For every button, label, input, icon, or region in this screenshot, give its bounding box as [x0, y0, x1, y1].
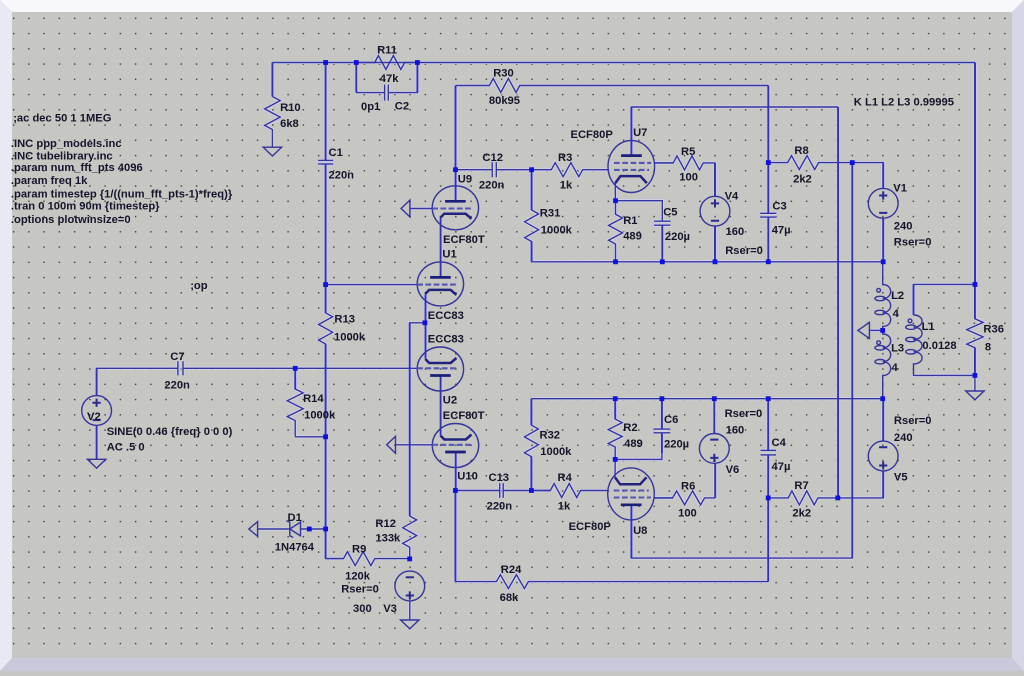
wire R8 to V1 [852, 163, 883, 189]
svg-text:1N4764: 1N4764 [275, 541, 315, 553]
svg-text:489: 489 [623, 231, 642, 243]
svg-text:R11: R11 [377, 45, 397, 57]
wire upper rail [532, 261, 884, 263]
wire R8 node drop (cross-couple) [851, 163, 853, 558]
capacitor C2 plate1 [384, 85, 386, 101]
capacitor C6 lead-top [661, 399, 663, 429]
resistor R24 [455, 575, 768, 589]
wire V3 bottom [409, 601, 411, 620]
svg-text:ECF80P: ECF80P [569, 521, 612, 533]
wire R36 gnd stub [974, 375, 976, 391]
svg-text:220µ: 220µ [664, 439, 689, 451]
svg-text:R10: R10 [280, 102, 301, 114]
junction node at 715,262 [713, 259, 718, 264]
capacitor C13 lead-l [455, 490, 499, 492]
svg-text:SINE(0 0.46 {freq} 0 0 0): SINE(0 0.46 {freq} 0 0 0) [107, 426, 233, 438]
diode D1 1N4764 [286, 521, 300, 538]
svg-text:1000k: 1000k [334, 332, 366, 344]
svg-text:220n: 220n [329, 170, 355, 182]
svg-text:220n: 220n [479, 179, 505, 191]
capacitor C1 lead-bot [325, 164, 327, 285]
wire top rail [272, 62, 975, 64]
op-amp U7 pentode ECF80P [608, 141, 655, 193]
svg-text:R6: R6 [681, 481, 695, 493]
svg-text:120k: 120k [345, 571, 371, 583]
svg-text:100: 100 [678, 507, 697, 519]
capacitor C4 plate1 [761, 449, 777, 451]
junction node at 714,399 [712, 396, 717, 401]
node arrow D1 [249, 522, 258, 537]
voltage V6 [699, 434, 729, 464]
wire U8 g2 to R6 [654, 497, 672, 499]
svg-text:.INC tubelibrary.inc: .INC tubelibrary.inc [11, 151, 113, 163]
wire R10 top [271, 63, 273, 97]
svg-text:C2: C2 [395, 101, 409, 113]
wire U9 plate lead [455, 170, 457, 202]
svg-text:1k: 1k [558, 501, 571, 513]
wire V5 top [882, 399, 884, 441]
svg-text:.param num_fft_pts 4096: .param num_fft_pts 4096 [11, 162, 143, 174]
svg-text:ECF80T: ECF80T [443, 234, 485, 246]
svg-text:0p1: 0p1 [361, 101, 380, 113]
junction node at 852,163 [850, 160, 855, 165]
svg-text:V3: V3 [383, 603, 397, 615]
voltage V2 [82, 396, 112, 426]
wire U10 grid [396, 444, 433, 446]
svg-text:R30: R30 [493, 67, 514, 79]
junction node at 883,330 [880, 328, 885, 333]
resistor R2 [608, 399, 622, 460]
resistor R3 [532, 163, 609, 177]
svg-text:.INC ppp_models.inc: .INC ppp_models.inc [11, 138, 122, 150]
svg-text:U9: U9 [458, 173, 472, 185]
capacitor C6 lead-bot [661, 433, 663, 453]
wire R5 to V4 [714, 163, 716, 197]
svg-text:240: 240 [894, 221, 913, 233]
capacitor C6 plate1 [654, 428, 671, 430]
capacitor C13 lead-r [503, 490, 531, 492]
resistor R36 [967, 284, 983, 375]
capacitor C12 plate1 [491, 162, 493, 177]
junction node at 326,437 [323, 434, 328, 439]
svg-text:V4: V4 [725, 191, 739, 203]
resistor R11 [356, 56, 417, 70]
capacitor C7 plate2 [182, 361, 184, 375]
svg-text:C3: C3 [772, 200, 786, 212]
wire V4 bottom [714, 226, 716, 262]
svg-text:240: 240 [894, 432, 913, 444]
svg-text:220µ: 220µ [665, 231, 690, 243]
svg-text:C7: C7 [170, 351, 184, 363]
resistor R31 [525, 170, 539, 262]
ground below R36 [966, 391, 984, 400]
voltage V1 [868, 188, 898, 218]
capacitor C2 plate2 [387, 85, 389, 101]
svg-text:R24: R24 [501, 564, 522, 576]
svg-text:R12: R12 [375, 518, 396, 530]
svg-text:2k2: 2k2 [793, 174, 812, 186]
wire cathode tee [410, 323, 426, 516]
wire U2 plate to U10 cathode [440, 375, 442, 434]
op-amp U1 triode ECC83 [417, 262, 463, 306]
svg-text:U10: U10 [457, 470, 478, 482]
wire column to R9 [326, 529, 344, 559]
capacitor C4 lead-bot [767, 455, 769, 498]
junction node at 425,323 [423, 320, 428, 325]
junction node at 883,262 [881, 259, 886, 264]
capacitor C13 plate2 [502, 483, 504, 498]
resistor R7 [768, 491, 838, 505]
resistor R10 [265, 97, 281, 148]
svg-text:R2: R2 [623, 422, 637, 434]
junction node at 768,262 [766, 259, 771, 264]
svg-text:R36: R36 [983, 324, 1004, 336]
svg-text:V6: V6 [726, 464, 740, 476]
capacitor C12 lead-l [456, 169, 493, 171]
wire R24 up to C4 node [767, 498, 769, 582]
svg-text:R9: R9 [352, 543, 366, 555]
voltage V4 [700, 196, 730, 226]
svg-text:L2: L2 [891, 290, 904, 302]
op-amp U2 triode ECC83 [417, 347, 463, 391]
svg-text:4: 4 [892, 362, 899, 374]
resistor R8 [768, 156, 852, 170]
junction node at 616,262 [613, 259, 618, 264]
svg-text:160: 160 [726, 226, 745, 238]
wire U8 plate down [631, 505, 852, 558]
capacitor C7 lead-l [171, 367, 178, 369]
svg-text:47µ: 47µ [772, 461, 791, 473]
junction node at 615,459 [613, 457, 618, 462]
svg-text:R3: R3 [558, 152, 572, 164]
svg-text:.param timestep {1/((num_fft_p: .param timestep {1/((num_fft_pts-1)*freq… [11, 189, 233, 201]
resistor R14 [287, 368, 303, 437]
svg-text:R1: R1 [623, 215, 637, 227]
svg-text:100: 100 [679, 172, 698, 184]
svg-text:Rser=0: Rser=0 [341, 583, 379, 595]
wire C2 branch right [394, 63, 417, 93]
svg-text:ECF80T: ECF80T [443, 410, 485, 422]
resistor R6 [654, 491, 715, 505]
svg-text:D1: D1 [288, 512, 302, 524]
capacitor C13 plate1 [499, 483, 501, 498]
wire V6 top [713, 399, 715, 434]
junction node at 455,490 [453, 488, 458, 493]
junction node at 417,62 [415, 60, 420, 65]
node arrow L2L3 tap [858, 322, 870, 338]
svg-text:;ac dec 50 1 1MEG: ;ac dec 50 1 1MEG [13, 113, 112, 125]
svg-text:C5: C5 [663, 206, 677, 218]
wire R14 bottom [295, 436, 325, 438]
capacitor C3 lead-top [767, 163, 769, 214]
wire U7 cathode lead [614, 183, 616, 201]
svg-text:300: 300 [353, 603, 372, 615]
junction node at 768,498 [766, 496, 771, 501]
svg-text:0.0128: 0.0128 [922, 340, 956, 352]
resistor R9 [326, 552, 410, 566]
svg-text:1000k: 1000k [304, 410, 336, 422]
svg-text:C4: C4 [772, 437, 787, 449]
capacitor C4 lead-top [767, 399, 769, 451]
svg-text:U1: U1 [442, 249, 456, 261]
wire U7 plate up [631, 107, 838, 156]
capacitor C2 lead-r [388, 92, 394, 94]
junction node at 309,529 [307, 527, 312, 532]
wire R6 to V6 [714, 463, 716, 498]
svg-text:1k: 1k [560, 179, 573, 191]
inductor L1 [906, 315, 922, 375]
svg-text:R13: R13 [334, 314, 355, 326]
resistor R30 [456, 79, 769, 93]
svg-text:R31: R31 [540, 208, 561, 220]
svg-text:L1: L1 [922, 321, 935, 333]
capacitor C4 plate2 [761, 454, 777, 456]
wire V2 to C7 [97, 368, 171, 395]
wire L1 top [914, 284, 976, 315]
wire C6 bottom link [615, 453, 662, 459]
svg-text:C12: C12 [482, 152, 503, 164]
svg-text:ECC83: ECC83 [428, 334, 464, 346]
svg-text:2k2: 2k2 [792, 508, 811, 520]
svg-text:Rser=0: Rser=0 [725, 408, 763, 420]
junction node at 531,490 [529, 488, 534, 493]
ground below V3 [401, 620, 419, 629]
wire U9 cathode to U1 plate [440, 218, 442, 278]
wire U7 g2 to R5 [655, 162, 674, 164]
capacitor C5 lead-top [661, 213, 663, 221]
inductor L2 [875, 262, 891, 331]
wire C2 branch left [356, 63, 380, 93]
svg-text:47k: 47k [380, 73, 399, 85]
svg-text:R4: R4 [558, 472, 573, 484]
wire U9 grid [410, 208, 432, 210]
capacitor C12 lead-r [496, 169, 531, 171]
capacitor C3 plate1 [760, 212, 776, 214]
junction node at 356,62 [354, 60, 359, 65]
junction node at 975,375 [973, 373, 978, 378]
capacitor C6 plate2 [654, 432, 671, 434]
svg-text:R14: R14 [303, 393, 324, 405]
svg-text:160: 160 [726, 425, 745, 437]
node arrow U10 grid [387, 436, 396, 453]
junction node at 456,170 [453, 167, 458, 172]
node arrow U9 grid [401, 200, 410, 217]
wire U8 cathode up [614, 459, 616, 477]
wire arrow to D1 [258, 528, 290, 530]
capacitor C12 plate2 [495, 162, 497, 177]
junction node at 326,62 [323, 60, 328, 65]
svg-text:ECC83: ECC83 [428, 310, 464, 322]
svg-text:R7: R7 [794, 480, 808, 492]
inductor L3 [875, 330, 891, 398]
svg-text:68k: 68k [500, 592, 519, 604]
svg-text:R5: R5 [681, 146, 695, 158]
svg-text:K L1 L2 L3 0.99995: K L1 L2 L3 0.99995 [854, 97, 954, 109]
svg-text:1000k: 1000k [540, 446, 572, 458]
resistor R1 [609, 201, 623, 262]
wire tap arrow [869, 329, 882, 331]
wire R30 left vert [455, 86, 457, 170]
junction node at 662,399 [660, 396, 665, 401]
wire C13 to R4 line [531, 490, 550, 492]
capacitor C5 lead-bot [661, 225, 663, 262]
junction node at 662,262 [660, 259, 665, 264]
wire U10 plate lead [455, 452, 457, 491]
svg-text:R8: R8 [794, 145, 808, 157]
svg-text:.tran 0 100m 90m {timestep}: .tran 0 100m 90m {timestep} [11, 201, 160, 213]
capacitor C3 plate2 [760, 216, 776, 218]
op-amp U10 triode ECF80T [432, 424, 478, 468]
svg-text:R32: R32 [540, 430, 561, 442]
capacitor C1 plate1 [318, 159, 333, 161]
svg-text:80k95: 80k95 [489, 95, 520, 107]
svg-text:220n: 220n [487, 501, 513, 513]
resistor R13 [319, 285, 333, 529]
resistor R4 [531, 484, 607, 498]
capacitor C7 lead-r [183, 367, 417, 369]
svg-text:;op: ;op [190, 280, 208, 292]
svg-text:L3: L3 [891, 342, 904, 354]
resistor R32 [524, 399, 538, 491]
wire right drop to L1/R36 [974, 63, 976, 285]
junction node at 410,559 [407, 557, 412, 562]
svg-text:8: 8 [985, 342, 991, 354]
resistor R12 [403, 516, 417, 559]
wire U7 plate drop (cross-couple) [837, 107, 839, 498]
capacitor C1 lead-top [325, 63, 327, 161]
svg-text:V5: V5 [894, 472, 908, 484]
svg-text:220n: 220n [164, 379, 190, 391]
wire V2 bottom [96, 425, 98, 459]
wire U1 cathode [425, 295, 427, 323]
wire U7 cathode to C5 [616, 201, 663, 213]
svg-text:C6: C6 [664, 414, 678, 426]
wire R7 to V5 [838, 471, 883, 498]
capacitor C5 plate2 [654, 224, 671, 226]
junction node at 768,399 [766, 396, 771, 401]
capacitor C5 plate1 [654, 220, 671, 222]
junction node at 975,284 [973, 282, 978, 287]
svg-text:C1: C1 [329, 147, 343, 159]
capacitor C1 plate2 [318, 163, 333, 165]
svg-text:ECF80P: ECF80P [571, 129, 614, 141]
svg-text:Rser=0: Rser=0 [894, 236, 932, 248]
wire R30 right vert [767, 86, 769, 163]
ground below R10 [263, 147, 281, 156]
junction node at 532,170 [529, 167, 534, 172]
svg-text:489: 489 [624, 438, 643, 450]
resistor R5 [655, 156, 715, 170]
svg-text:4: 4 [893, 308, 900, 320]
svg-text:U7: U7 [633, 127, 647, 139]
junction node at 883,399 [880, 396, 885, 401]
svg-text:Rser=0: Rser=0 [894, 415, 932, 427]
voltage V3 [395, 571, 425, 601]
junction node at 838,498 [835, 496, 840, 501]
svg-text:.param freq 1k: .param freq 1k [11, 175, 88, 187]
wire V1 bottom [882, 218, 884, 262]
capacitor C3 lead-bot [767, 217, 769, 262]
junction node at 326,529 [323, 527, 328, 532]
wire lower rail [531, 398, 882, 400]
op-amp U9 triode ECF80T [432, 186, 478, 230]
svg-text:U2: U2 [443, 395, 457, 407]
svg-text:1000k: 1000k [541, 224, 573, 236]
wire halo layer [97, 56, 984, 621]
svg-text:133k: 133k [375, 533, 401, 545]
junction node at 768,163 [766, 160, 771, 165]
wire D1 to R13 column [301, 528, 326, 530]
junction node at 326,285 [323, 282, 328, 287]
capacitor C2 lead-l [380, 92, 385, 94]
svg-text:V1: V1 [893, 183, 907, 195]
wire U2 cathode [425, 323, 427, 359]
svg-text:Rser=0: Rser=0 [725, 245, 763, 257]
svg-text:C13: C13 [489, 472, 510, 484]
junction node at 295,368 [293, 366, 298, 371]
svg-text:AC .5 0: AC .5 0 [107, 441, 145, 453]
svg-text:.options plotwinsize=0: .options plotwinsize=0 [11, 214, 131, 226]
ground below V2 [87, 459, 105, 468]
svg-text:V2: V2 [87, 411, 101, 423]
svg-text:47µ: 47µ [772, 224, 791, 236]
svg-text:U8: U8 [633, 525, 647, 537]
junction node at 615,399 [613, 396, 618, 401]
junction node at 616,201 [613, 198, 618, 203]
wire C1 node to U1 grid [326, 284, 418, 286]
voltage V5 [868, 441, 898, 471]
capacitor C7 plate1 [177, 361, 179, 375]
svg-text:6k8: 6k8 [280, 118, 299, 130]
op-amp U8 pentode ECF80P [608, 468, 655, 520]
wire L1 bottom [914, 374, 975, 377]
wire U10 plate drop [454, 491, 456, 582]
